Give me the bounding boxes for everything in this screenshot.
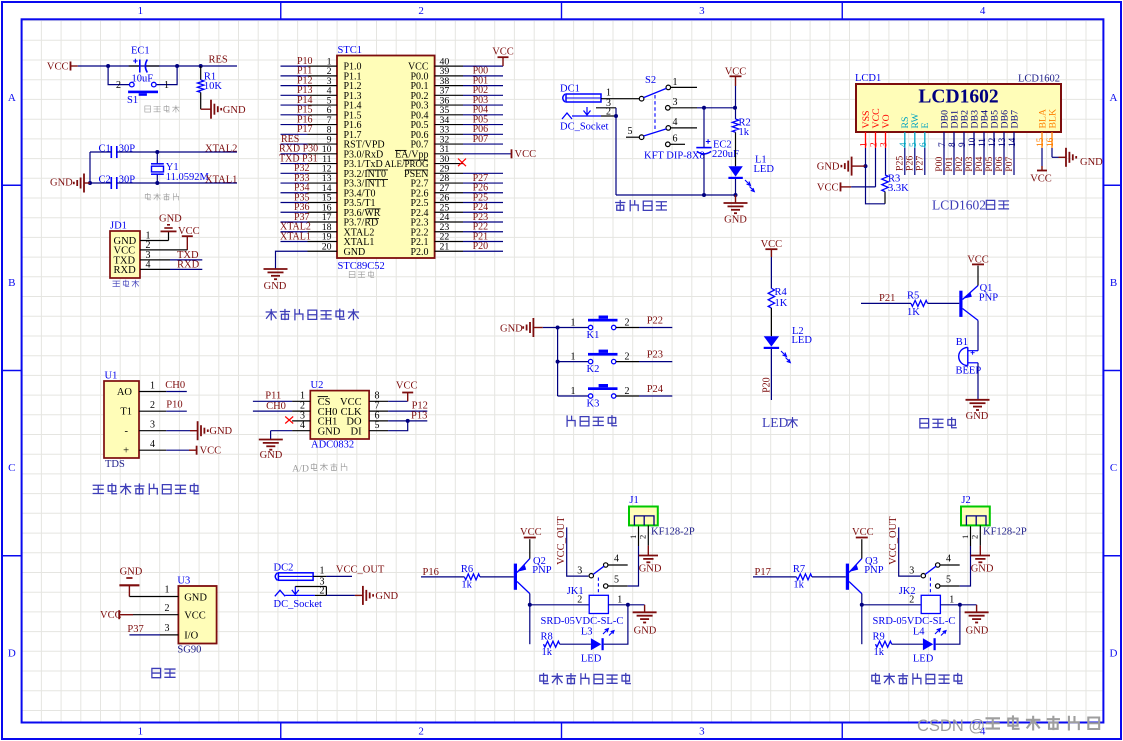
svg-text:VCC: VCC (852, 527, 874, 538)
push button S1 (108, 66, 177, 106)
wire DC2 pin2 gnd (315, 594, 327, 596)
wire lcd pin1 gnd (865, 148, 867, 166)
no-connect cross (pin30) (458, 159, 466, 167)
wire P17 to R7 (753, 576, 796, 578)
svg-text:KF128-2P: KF128-2P (983, 527, 1027, 538)
dc socket DC1 (560, 84, 608, 133)
ground GND (keys) (500, 318, 543, 337)
svg-text:GND: GND (209, 426, 232, 437)
svg-text:4: 4 (980, 5, 986, 17)
wire cap left join (90, 151, 111, 153)
wire Q1 collector to buzzer (977, 320, 979, 350)
text crystal caption (145, 193, 178, 200)
resistor R4 (768, 287, 788, 309)
servo U3 body (177, 575, 216, 655)
dc socket DC2 (274, 563, 322, 611)
svg-text:GND: GND (639, 563, 662, 574)
svg-text:9: 9 (958, 142, 968, 147)
svg-text:DI: DI (351, 427, 363, 438)
wire keys common (543, 327, 589, 329)
ground GND (power) (724, 195, 748, 226)
wire R5 to Q1 base (928, 302, 960, 304)
junction (175, 64, 179, 68)
relay JK2 contacts (909, 554, 960, 589)
junction (528, 603, 532, 607)
svg-text:U1: U1 (105, 371, 118, 382)
power port VCC (lcd backlight) (1030, 166, 1052, 185)
mcu pin name overlines (367, 150, 429, 218)
mcu left wires (281, 66, 308, 241)
power port VCC (led) (761, 239, 783, 257)
svg-text:1k: 1k (793, 579, 804, 590)
wire U2 pin2 CH0 (253, 410, 292, 412)
ground GND (JD1) (159, 214, 182, 232)
svg-text:7: 7 (938, 142, 948, 147)
resistor R1 (198, 66, 223, 109)
svg-text:6: 6 (919, 142, 929, 147)
wire lcd pin15 vcc (1041, 148, 1043, 166)
svg-text:20: 20 (322, 241, 332, 252)
ground GND (U2) (259, 440, 283, 462)
svg-text:2: 2 (116, 80, 121, 91)
wire JD1 pin3 TXD (140, 259, 170, 261)
svg-text:GND: GND (159, 214, 182, 225)
svg-text:DC_Socket: DC_Socket (560, 122, 608, 133)
capacitor EC1 (129, 46, 160, 85)
wire Q3 collector (861, 594, 863, 645)
wire led L4 return (936, 605, 960, 644)
svg-text:2: 2 (165, 603, 170, 614)
wire R6 to Q2 base (480, 576, 514, 578)
svg-text:1: 1 (949, 594, 954, 605)
svg-text:S2: S2 (645, 75, 656, 86)
svg-text:2: 2 (606, 107, 611, 118)
transistor Q3 PNP (846, 556, 884, 594)
svg-text:R8: R8 (541, 631, 553, 642)
svg-text:VCC_OUT: VCC_OUT (888, 516, 899, 565)
text download port caption (113, 280, 139, 287)
svg-text:P21: P21 (879, 293, 895, 304)
junction (733, 106, 737, 110)
svg-text:P27: P27 (915, 156, 926, 171)
svg-text:P17: P17 (755, 567, 771, 578)
led L1 (728, 155, 774, 196)
wire VCC_OUT to contact 3 (899, 527, 921, 576)
svg-text:5: 5 (614, 575, 619, 586)
svg-text:P07: P07 (473, 134, 489, 145)
ground GND (lcd right) (1059, 148, 1104, 168)
junction (860, 603, 864, 607)
svg-text:LCD1: LCD1 (855, 73, 881, 84)
svg-text:12: 12 (988, 137, 998, 147)
junction (958, 603, 962, 607)
svg-text:KF128-2P: KF128-2P (651, 527, 695, 538)
svg-text:3: 3 (673, 97, 678, 108)
wire U2 pin6 P13 (388, 420, 427, 422)
svg-text:RES: RES (209, 55, 228, 66)
svg-text:L3: L3 (581, 626, 593, 637)
svg-text:PNP: PNP (532, 565, 551, 576)
svg-text:2: 2 (625, 318, 630, 329)
svg-text:STC89C52: STC89C52 (338, 261, 385, 272)
svg-text:EC1: EC1 (131, 46, 150, 57)
wire P37 (129, 634, 160, 636)
wire DC1 pin3 (596, 107, 616, 109)
svg-text:P16: P16 (423, 567, 439, 578)
svg-text:1k: 1k (542, 647, 553, 658)
svg-text:2: 2 (577, 594, 582, 605)
svg-text:KFT DIP-8X8: KFT DIP-8X8 (644, 151, 705, 162)
junction (155, 150, 159, 154)
wire Q2 collector (529, 594, 531, 645)
power port VCC (reset) (47, 62, 78, 73)
svg-text:BLK: BLK (1047, 109, 1058, 129)
text water module title (93, 484, 198, 495)
svg-text:JD1: JD1 (110, 221, 127, 232)
svg-text:4: 4 (673, 117, 678, 128)
svg-text:ADC0832: ADC0832 (311, 439, 354, 450)
power port VCC (U2) (396, 381, 418, 402)
svg-text:10uF: 10uF (132, 74, 154, 85)
svg-text:P37: P37 (127, 624, 143, 635)
led L4 (892, 626, 946, 664)
text power circuit title (616, 201, 667, 211)
svg-text:2: 2 (150, 400, 155, 411)
resistor R3 (882, 148, 909, 204)
wire coil row (862, 604, 921, 606)
svg-text:GND: GND (817, 161, 840, 172)
junction (626, 603, 630, 607)
ground GND (J1) (639, 556, 662, 575)
svg-text:STC1: STC1 (338, 45, 363, 56)
svg-text:A: A (8, 92, 16, 104)
svg-text:1: 1 (138, 5, 144, 17)
junction (702, 106, 706, 110)
svg-text:TDS: TDS (105, 459, 125, 470)
push button K1 (571, 316, 673, 342)
wire U2 pin7 P12 (388, 410, 427, 412)
svg-text:1: 1 (571, 386, 576, 397)
svg-text:1: 1 (165, 585, 170, 596)
wire U2 pin8 vcc (388, 400, 408, 402)
svg-text:GND: GND (184, 592, 207, 603)
svg-text:2: 2 (970, 535, 980, 539)
svg-text:3: 3 (699, 726, 705, 738)
svg-text:DB7: DB7 (1009, 110, 1020, 129)
text mcu caption (349, 271, 374, 278)
svg-text:1: 1 (571, 318, 576, 329)
svg-text:VO: VO (881, 114, 892, 128)
power port VCC (Q3) (852, 527, 874, 538)
mcu pins (308, 66, 464, 251)
wire R3 bottom to gnd net (866, 166, 886, 204)
svg-text:LCD1602: LCD1602 (1018, 74, 1060, 85)
wire JD1 pin1 to GND (140, 240, 169, 242)
wire led L3 return (604, 605, 628, 644)
svg-text:21: 21 (440, 241, 450, 252)
svg-text:4: 4 (946, 554, 951, 565)
svg-text:DC_Socket: DC_Socket (274, 599, 322, 610)
wire P21 to R5 (861, 302, 911, 304)
transistor Q1 PNP (959, 283, 998, 320)
svg-text:8: 8 (948, 142, 958, 147)
svg-text:CH0: CH0 (165, 380, 185, 391)
relay JK1 contacts (577, 554, 628, 589)
text buzzer title (920, 418, 956, 428)
svg-text:11.0592M: 11.0592M (166, 172, 210, 183)
svg-text:U2: U2 (311, 380, 324, 391)
wire DC1 pin2 (601, 115, 616, 117)
svg-text:14: 14 (1008, 137, 1018, 147)
wire coil pin1 (608, 604, 644, 606)
mcu left net labels (279, 56, 318, 242)
mcu right net labels (473, 66, 489, 252)
svg-text:GND: GND (120, 566, 143, 577)
svg-text:11: 11 (978, 138, 988, 147)
junction (614, 114, 618, 118)
svg-text:VCC: VCC (1030, 174, 1052, 185)
svg-text:A/D: A/D (292, 463, 309, 474)
svg-text:RXD: RXD (177, 260, 200, 271)
svg-text:P20: P20 (473, 241, 489, 252)
led L3 (560, 626, 614, 664)
svg-text:1k: 1k (874, 647, 885, 658)
svg-text:VCC: VCC (520, 527, 542, 538)
svg-text:P23: P23 (647, 350, 663, 361)
svg-text:GND: GND (966, 625, 989, 636)
ground GND (coil JK2) (965, 605, 989, 637)
lcd pin names and numbers (860, 108, 1059, 148)
svg-text:VCC: VCC (396, 381, 418, 392)
svg-text:R5: R5 (907, 291, 919, 302)
text reset caption (145, 105, 179, 112)
relay JK1 coil (541, 578, 624, 628)
resistor R6 (461, 564, 480, 590)
wire R7 to Q3 base (812, 576, 846, 578)
svg-text:16: 16 (1046, 137, 1056, 147)
resistor R2 (732, 108, 750, 167)
svg-text:VCC: VCC (492, 47, 514, 58)
svg-text:2: 2 (870, 142, 880, 147)
svg-text:3: 3 (165, 623, 170, 634)
svg-text:10: 10 (968, 137, 978, 147)
wire vcc to R4 (770, 257, 772, 288)
svg-text:S1: S1 (127, 95, 138, 106)
svg-text:3: 3 (909, 565, 914, 576)
svg-text:GND: GND (50, 178, 73, 189)
svg-text:GND: GND (966, 411, 989, 422)
power port VCC (mcu pin31) (512, 149, 537, 160)
svg-text:13: 13 (998, 137, 1008, 147)
svg-text:2: 2 (909, 594, 914, 605)
svg-text:5: 5 (375, 420, 380, 431)
svg-text:XTAL1: XTAL1 (205, 175, 237, 186)
svg-text:XTAL2: XTAL2 (205, 144, 237, 155)
svg-text:1: 1 (150, 381, 155, 392)
wire bottom rail (616, 194, 736, 196)
svg-text:DC1: DC1 (560, 84, 580, 95)
power port VCC (servo) (100, 610, 133, 621)
ground GND (R1) (201, 100, 246, 119)
svg-text:+: + (123, 446, 129, 457)
relay JK2 coil (873, 578, 956, 628)
mcu right wires (463, 66, 512, 251)
wire U2 pin4 gnd (271, 430, 293, 432)
svg-text:K1: K1 (587, 330, 600, 341)
wire coil row (530, 604, 589, 606)
svg-text:CH0: CH0 (266, 401, 286, 412)
wire J2 pin2 gnd (979, 525, 981, 545)
power port VCC (U1) (189, 446, 221, 457)
wire Q2 emitter to VCC (529, 539, 531, 558)
wire DC2 pin3 (295, 586, 326, 588)
svg-text:LED: LED (762, 415, 788, 430)
wire R4 to led (770, 308, 772, 336)
power port VCC (power circuit) (725, 67, 747, 87)
wire DC1 to rail (615, 108, 617, 195)
wire U1 pin3 gnd (166, 430, 190, 432)
svg-text:R6: R6 (461, 564, 473, 575)
junction (106, 64, 110, 68)
svg-text:1: 1 (628, 535, 638, 539)
wire U2 pin5 to P13 net (388, 421, 408, 431)
push button K2 (571, 350, 673, 376)
svg-text:R7: R7 (793, 564, 805, 575)
power port VCC (buzzer) (967, 255, 989, 266)
svg-text:1K: 1K (775, 298, 788, 309)
svg-text:GND: GND (223, 105, 246, 116)
svg-text:30P: 30P (119, 144, 136, 155)
svg-text:E: E (920, 123, 931, 129)
wire buzzer to gnd (977, 363, 979, 400)
crystal Y1 (151, 152, 210, 183)
junction (734, 193, 738, 197)
power port VCC (mcu pin40) (492, 47, 514, 67)
svg-text:CSDN @: CSDN @ (917, 717, 985, 735)
svg-text:B: B (8, 277, 15, 289)
resistor R8 (541, 631, 560, 658)
svg-text:15: 15 (1036, 137, 1046, 147)
text relay title (872, 674, 962, 685)
svg-text:4: 4 (150, 439, 155, 450)
svg-text:3: 3 (880, 142, 890, 147)
wire U2 pin1 P11 (253, 400, 292, 402)
wire DC1 pin1 (601, 98, 639, 100)
wire Q1 emitter to VCC (977, 266, 979, 286)
svg-text:5: 5 (946, 575, 951, 586)
svg-text:1: 1 (673, 77, 678, 88)
wire VCC to RES (78, 65, 237, 67)
svg-text:5: 5 (909, 142, 919, 147)
svg-text:GND: GND (264, 281, 287, 292)
wire contact5 to J1 (628, 546, 639, 586)
junction (556, 360, 560, 364)
text servo title (152, 668, 175, 677)
text relay title (540, 674, 630, 685)
connector J1 (628, 495, 695, 539)
adc U2 pins (292, 391, 388, 431)
wire coil pin1 (940, 604, 976, 606)
no-connect cross (U2 pin3) (285, 417, 293, 424)
led L2 (764, 326, 813, 363)
wire JD1 pin2 (140, 249, 187, 251)
connector JD1 (110, 221, 151, 279)
wire Q3 emitter to VCC (861, 539, 863, 558)
module U1 TDS body (104, 371, 139, 470)
buzzer B1 (956, 337, 982, 377)
ground GND (crystal) (50, 174, 90, 193)
svg-text:1k: 1k (461, 579, 472, 590)
svg-text:T1: T1 (120, 407, 132, 418)
svg-text:LED: LED (581, 654, 602, 665)
svg-text:3.3K: 3.3K (888, 183, 909, 194)
wire JD1 pin4 RXD (140, 268, 170, 270)
power port VCC (Q2) (520, 527, 542, 538)
svg-text:D: D (1110, 648, 1118, 660)
svg-text:K3: K3 (587, 399, 600, 410)
svg-text:30P: 30P (119, 175, 136, 186)
svg-text:P20: P20 (761, 377, 772, 393)
ground GND (U1) (190, 421, 233, 440)
svg-text:P13: P13 (411, 410, 427, 421)
svg-text:LED: LED (754, 164, 775, 175)
wire lcd pin16 gnd (1051, 148, 1053, 157)
svg-text:GND: GND (318, 427, 341, 438)
svg-text:GND: GND (634, 625, 657, 636)
svg-text:P22: P22 (647, 316, 663, 327)
svg-text:C1: C1 (99, 144, 111, 155)
wire XTAL1 net (117, 182, 237, 184)
svg-text:10K: 10K (204, 81, 223, 92)
svg-text:P24: P24 (647, 384, 664, 395)
ground GND (servo) (119, 566, 142, 596)
adc U2 body (310, 380, 369, 450)
svg-text:B: B (1110, 277, 1117, 289)
wire U1 pin1 CH0 (166, 391, 187, 393)
wire DC2 pin1 VCC_OUT (313, 575, 326, 577)
svg-text:A: A (1110, 92, 1118, 104)
junction (702, 193, 706, 197)
junction (556, 326, 560, 330)
svg-text:R9: R9 (873, 631, 885, 642)
svg-text:LCD1602: LCD1602 (918, 87, 998, 108)
svg-text:J1: J1 (629, 495, 638, 506)
resistor R9 (873, 631, 892, 658)
svg-text:3: 3 (150, 420, 155, 431)
wire P16 to R6 (421, 576, 464, 578)
wire contact5 to J2 (960, 546, 971, 586)
svg-text:1: 1 (960, 535, 970, 539)
text minimal system title (266, 309, 358, 320)
ground GND (J2) (971, 556, 994, 575)
svg-text:1: 1 (860, 142, 870, 147)
svg-text:C: C (8, 462, 15, 474)
svg-text:1: 1 (138, 726, 144, 738)
junction (155, 181, 159, 185)
wire mcu pin20 to GND (276, 251, 308, 269)
ground GND (lcd left) (817, 157, 866, 176)
svg-text:5: 5 (628, 126, 633, 137)
svg-text:R4: R4 (775, 287, 788, 298)
transistor Q2 PNP (514, 556, 552, 594)
ground GND (buzzer) (966, 400, 990, 422)
svg-text:1: 1 (164, 80, 169, 91)
svg-text:U3: U3 (177, 575, 190, 586)
capacitor C2 (99, 175, 136, 190)
push button K3 (571, 384, 673, 410)
svg-text:LED: LED (913, 654, 934, 665)
svg-text:LCD1602: LCD1602 (932, 198, 986, 213)
